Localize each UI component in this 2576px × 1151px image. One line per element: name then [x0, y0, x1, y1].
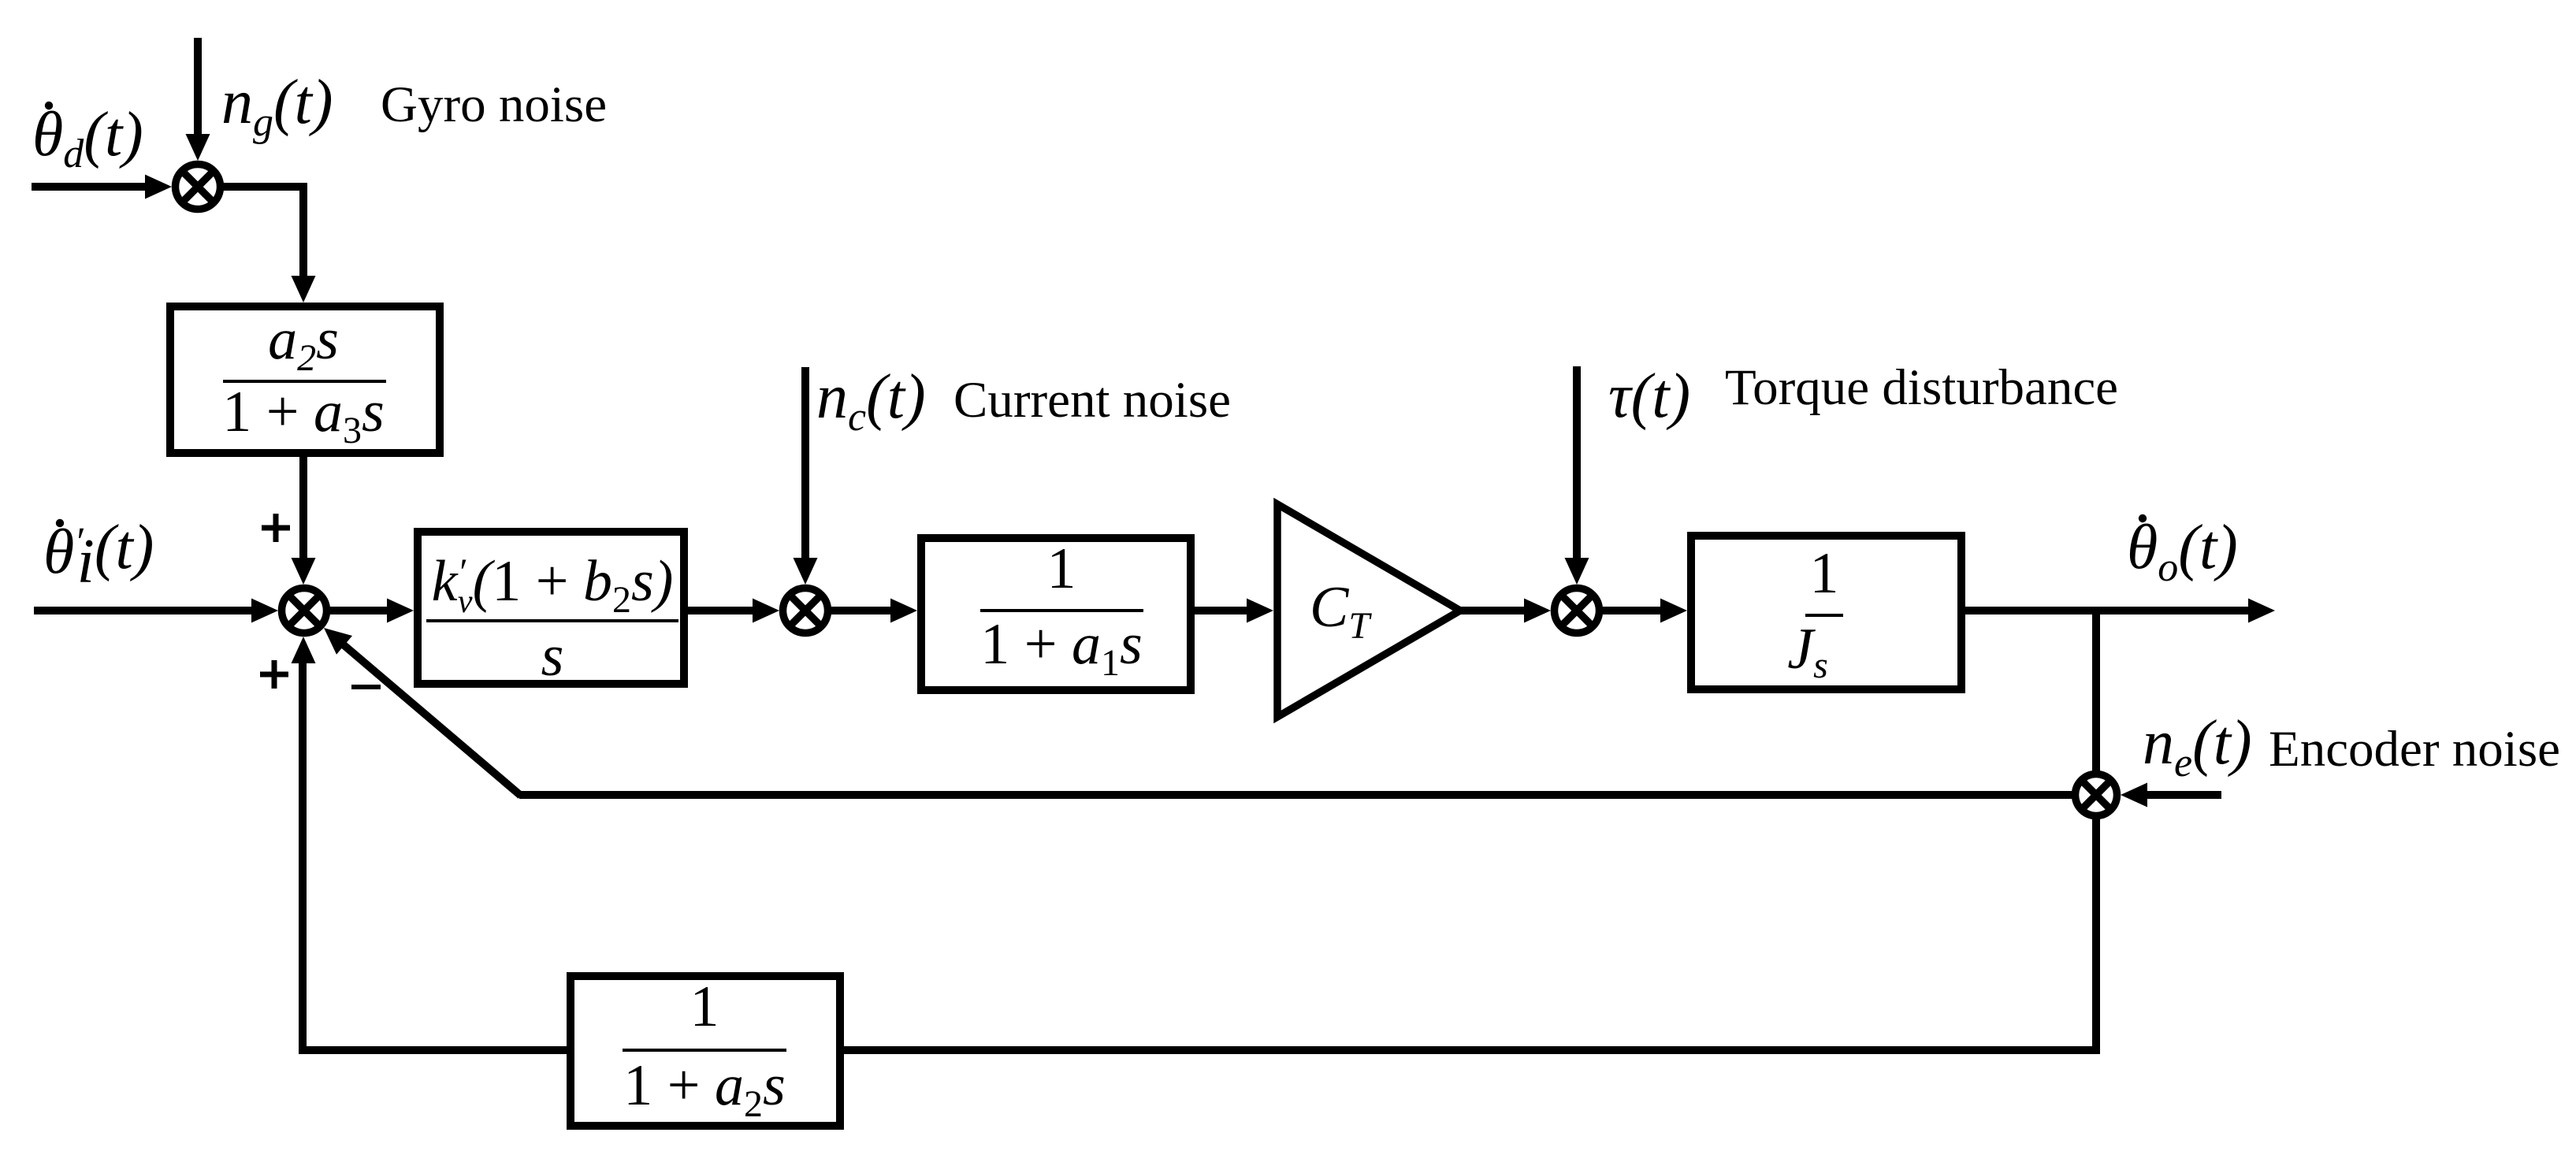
- svg-text:Gyro noise: Gyro noise: [381, 76, 607, 133]
- svg-text:Encoder noise: Encoder noise: [2269, 721, 2560, 778]
- svg-text:Current noise: Current noise: [953, 372, 1231, 429]
- svg-text:ng(t): ng(t): [221, 68, 333, 145]
- svg-text:1: 1: [690, 975, 719, 1039]
- svg-text:τ(t): τ(t): [1608, 362, 1690, 431]
- svg-text:θd(t): θd(t): [32, 100, 143, 176]
- svg-text:θo(t): θo(t): [2127, 513, 2238, 590]
- svg-text:Torque disturbance: Torque disturbance: [1725, 359, 2118, 416]
- svg-text:s: s: [541, 624, 564, 689]
- svg-text:1: 1: [1047, 537, 1076, 601]
- svg-text:1: 1: [1810, 541, 1839, 606]
- svg-text:ne(t): ne(t): [2143, 708, 2252, 785]
- svg-text:nc(t): nc(t): [816, 362, 926, 440]
